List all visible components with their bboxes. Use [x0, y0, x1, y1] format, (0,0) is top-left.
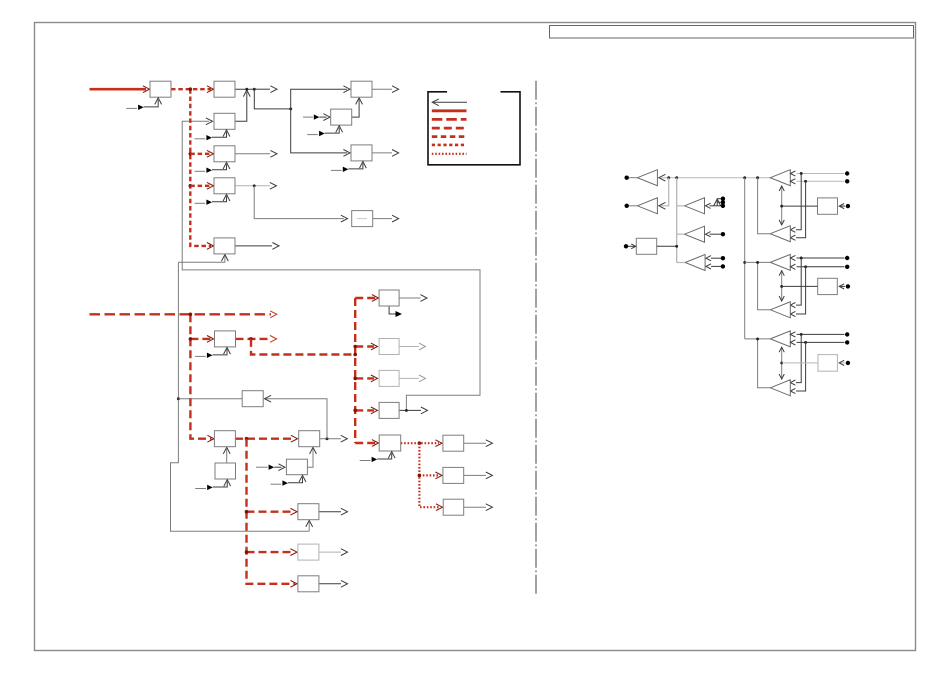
wire U16 output to U14 [307, 449, 313, 467]
node G1 a [800, 172, 803, 175]
buffer B2 [685, 226, 705, 242]
red dashed branch U18 [247, 551, 295, 553]
node G1 b [804, 180, 807, 183]
wire U5 to U10 [254, 186, 344, 219]
legend red medium-dash line [432, 135, 467, 138]
red dashed U11 output [236, 338, 272, 340]
tap into U4 bottom [195, 162, 230, 173]
red dashed lower rail [247, 439, 296, 584]
block U12 [242, 391, 263, 407]
red node column joint [353, 353, 357, 357]
red node U11 tee [249, 337, 253, 341]
terminal B1 a [721, 197, 725, 201]
node G4 riser [756, 261, 759, 264]
terminal U28 in [624, 244, 628, 248]
red node rail-R2 [189, 313, 193, 317]
wire U8 output [372, 88, 392, 90]
wire return rail U12 output [171, 262, 310, 531]
wire K2 input [840, 285, 846, 287]
block U18 [298, 544, 319, 560]
red node branch U23 [353, 409, 357, 413]
tap into U1 bottom [126, 98, 161, 110]
wire G1 inputs [790, 171, 795, 176]
wire U22 output [399, 377, 419, 379]
wire G3 input net b [797, 266, 845, 268]
red long-dash source line [90, 313, 272, 315]
red dashed column rail [354, 298, 356, 443]
wire U21 output [399, 346, 419, 348]
wire U14 output [319, 438, 341, 440]
terminal A2 out [625, 204, 629, 208]
node G5 b [804, 341, 807, 344]
tap into U5 bottom [195, 194, 230, 205]
buffer B3 [685, 255, 705, 271]
buffer G3 [770, 254, 790, 270]
wire K3 input [840, 362, 846, 364]
red node rail-top [189, 87, 193, 91]
wire U28 output [657, 245, 677, 247]
block U29 [818, 198, 838, 214]
buffer A2 [637, 198, 657, 214]
node main-A [667, 176, 670, 179]
block U4 [214, 146, 235, 162]
red long-dash rail [190, 314, 211, 438]
node bidir-K3 [780, 361, 783, 364]
block U26 [443, 467, 464, 483]
terminal K1 in [846, 204, 850, 208]
block U27 [443, 499, 464, 515]
block U3 [214, 113, 235, 129]
bidir arrow G1-G2 [781, 186, 783, 225]
red dashed rail top cluster [190, 89, 211, 246]
buffer G2 [770, 226, 790, 242]
block U5 [214, 178, 235, 194]
wire G3 output [745, 261, 771, 263]
red node U24 tee [418, 441, 422, 445]
legend box [428, 92, 520, 165]
block U9 [351, 145, 372, 161]
tap into U9 bottom [331, 162, 366, 173]
terminal B2 in [721, 232, 725, 236]
red dotted branch U26 [419, 474, 439, 476]
block U25 [443, 435, 464, 451]
tap into U24 bottom [360, 452, 395, 463]
wire G1 input net a [797, 173, 845, 175]
collector bus vertical [676, 178, 678, 263]
node U14 out tee [326, 437, 329, 440]
red dotted lower rail [419, 443, 440, 507]
block U10 [352, 211, 373, 227]
wire U17 bottom feed [308, 522, 310, 532]
title block [550, 26, 914, 39]
block U11 [215, 331, 236, 347]
node G5 a [800, 333, 803, 336]
legend red dash line [432, 127, 467, 130]
wire U25 output [464, 442, 486, 444]
buffer G4 [770, 302, 790, 318]
wire G4 feed a [796, 258, 801, 305]
block U15 [215, 463, 236, 479]
wire A2 input elbow [661, 178, 669, 206]
node rail-G3 [743, 261, 746, 264]
terminal G5 b [845, 340, 849, 344]
red node rail-U5 [189, 184, 193, 188]
wire G1 input net b [797, 180, 845, 182]
block U10 label dash [357, 218, 367, 220]
node bidir-K2 [780, 285, 783, 288]
wire U27 output [464, 506, 486, 508]
wire U19 output [319, 583, 341, 585]
wire G6 feed b [796, 342, 806, 391]
terminal B3 b [721, 264, 725, 268]
wire B3 input b [711, 265, 721, 267]
wire K3 output [782, 362, 818, 364]
wire U15 output to U13 [226, 449, 228, 463]
wire U6 bottom feed [178, 256, 225, 262]
wire feedback U23 to U3 [182, 121, 480, 410]
block U23 [379, 402, 399, 418]
wire U14 to U12 loop [266, 399, 328, 439]
wire U17 output [319, 511, 341, 513]
red dashed branch U5 [190, 185, 211, 187]
wire U20 bottom stub [389, 306, 395, 314]
node N1a [245, 88, 248, 91]
wire G4 feed b [796, 267, 806, 314]
wire U20 output [399, 297, 420, 299]
wire U6 output [235, 245, 272, 247]
legend signal-flow arrow [433, 101, 467, 103]
red solid source line [90, 88, 147, 91]
red long-dash branch U11 [190, 338, 211, 340]
red node branch U22 [353, 377, 357, 381]
collector rail vertical [744, 178, 746, 339]
terminal A1 out [625, 176, 629, 180]
block U16 [286, 459, 307, 475]
node main-riser1 [756, 176, 759, 179]
node U5 output tee [253, 184, 256, 187]
node return rail at U12 output [177, 397, 180, 400]
wire crossbar to U8 [291, 89, 347, 109]
terminal B1 c [721, 204, 725, 208]
wire K1 output [782, 205, 818, 207]
wire B1 inputs [710, 205, 718, 207]
tap into U11 bottom [195, 348, 230, 359]
wire U2 output [235, 88, 254, 90]
red dashed branch U4 [190, 153, 211, 155]
node crossbar [289, 107, 292, 110]
wire U9 output [372, 152, 392, 154]
node bidir-K1 [780, 205, 783, 208]
block U6 [214, 238, 235, 254]
buffer G5 [770, 331, 790, 347]
block U20 [379, 290, 399, 306]
wire G3 inputs [790, 255, 795, 260]
tap into U15 bottom [195, 480, 230, 491]
sheet divider centerline [535, 81, 537, 596]
tap into U7 bottom [307, 126, 342, 137]
wire G5 input net b [797, 341, 845, 343]
red dotted U24 to U25 [401, 442, 439, 444]
node G3 b [804, 265, 807, 268]
net main collector line [661, 177, 770, 179]
bidir arrow G5-G6 [781, 347, 783, 378]
terminal G1 b [845, 179, 849, 183]
red node branch U18 [245, 550, 249, 554]
tap into U16 bottom [271, 475, 306, 486]
block U31 [818, 355, 837, 372]
block U2 [214, 81, 235, 97]
block U28 input [628, 245, 635, 247]
wire U26 output [464, 474, 486, 476]
wire G2 feed a [796, 174, 801, 230]
terminal G3 b [845, 265, 849, 269]
terminal G1 a [845, 171, 849, 175]
wire G4 output riser [758, 262, 771, 309]
red node branch U17 [245, 510, 249, 514]
red dashed branch U20 [355, 297, 376, 299]
terminal K2 in [846, 284, 850, 288]
legend red solid line [432, 109, 467, 112]
red dashed U13 to U14 [235, 438, 295, 440]
buffer A1 [637, 170, 657, 186]
block U17 [298, 504, 319, 520]
wire G5 output [745, 338, 771, 340]
wire U12 output [178, 398, 242, 400]
wire K2 output [782, 285, 818, 287]
wire G6 output riser [758, 339, 771, 388]
red node branch U26 [418, 474, 422, 478]
wire N1 to crossbar [254, 89, 290, 109]
wire U23 output [399, 409, 421, 411]
node bus-U28 [675, 245, 678, 248]
terminal G3 a [845, 256, 849, 260]
red node rail-U4 [189, 152, 193, 156]
buffer G1 [770, 170, 790, 186]
wire G5 input net a [797, 333, 845, 335]
wire G3 input net a [797, 257, 845, 259]
buffer B1 [685, 198, 705, 214]
red node branch U21 [353, 345, 357, 349]
wire K1 input [840, 205, 846, 207]
wire U10 output [373, 218, 392, 220]
node main-rail [743, 176, 746, 179]
wire B3 input a [711, 257, 721, 259]
red node rail-U11 [189, 337, 193, 341]
red dashed net U1-U2 [171, 88, 211, 90]
terminal B1 b [721, 200, 725, 204]
legend red short-dash line [432, 144, 467, 147]
wire U3 output riser [235, 92, 247, 121]
node N1b [253, 88, 256, 91]
block U13 [214, 431, 235, 447]
node G3 a [800, 257, 803, 260]
legend red long-dash line [432, 118, 467, 121]
terminal K3 in [846, 361, 850, 365]
block U7 [331, 109, 352, 125]
wire G6 feed a [796, 334, 801, 382]
wire U5 output [235, 185, 270, 187]
wire crossbar to U9 [291, 109, 347, 153]
block U21 [379, 339, 399, 355]
terminal G5 a [845, 332, 849, 336]
red dashed branch U22 [355, 377, 374, 379]
block U14 [299, 431, 320, 447]
block U19 [298, 576, 319, 592]
node G6 riser [756, 337, 759, 340]
red dashed branch U24 [355, 442, 376, 444]
block U28 [636, 238, 656, 254]
wire G2 output riser [758, 178, 771, 234]
red dashed U11 to column rail [251, 339, 355, 355]
wire N1 port stub [254, 88, 270, 90]
terminal B3 a [721, 256, 725, 260]
block U1 [150, 81, 171, 97]
wire G5 inputs [790, 332, 795, 337]
block U8 [351, 81, 372, 97]
wire G2 feed b [796, 181, 806, 237]
node U23 output tee [405, 409, 408, 412]
red dashed branch U17 [247, 511, 295, 513]
wire B2 input [710, 233, 722, 235]
wire U4 output [235, 153, 270, 155]
wire U7 output to U8 [352, 100, 359, 118]
node main-bus [675, 176, 678, 179]
wire U7 input [303, 116, 306, 118]
wire U16 input [256, 466, 261, 468]
legend red dotted line [432, 153, 467, 155]
red dashed branch U21 [355, 345, 374, 347]
buffer G6 [770, 380, 790, 396]
block U22 [379, 370, 399, 386]
red node U13 tee [245, 437, 249, 441]
red dashed branch U23 [355, 409, 374, 411]
block U24 [379, 435, 401, 451]
wire U18 output [319, 551, 341, 553]
tap into U3 bottom [195, 130, 230, 141]
bidir arrow G3-G4 [781, 271, 783, 301]
block U30 [818, 278, 838, 294]
